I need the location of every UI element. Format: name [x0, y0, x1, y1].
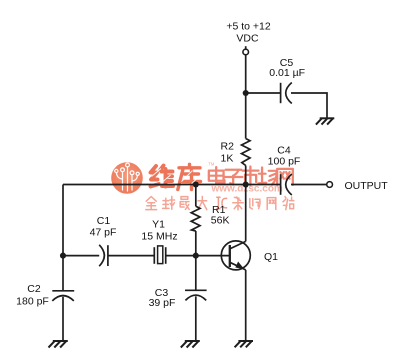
wire R1 vertical top [195, 185, 197, 207]
svg-text:0.01 µF: 0.01 µF [269, 67, 305, 79]
采 [234, 197, 240, 201]
resistor R2 [242, 139, 251, 166]
wire main feedback rail [63, 184, 281, 186]
svg-text:39 pF: 39 pF [149, 297, 176, 309]
最 [181, 197, 188, 200]
wire C1 to Y1 [108, 255, 154, 257]
svg-text:+5 to +12: +5 to +12 [226, 21, 271, 33]
char shi [243, 166, 259, 185]
svg-text:Y1: Y1 [152, 219, 165, 231]
站 [283, 197, 288, 210]
capacitor C1 plates [99, 245, 104, 266]
ground chassis C2 [53, 340, 68, 342]
球 [163, 198, 169, 208]
watermark brand text 库 [178, 164, 201, 189]
svg-text:56K: 56K [211, 215, 230, 227]
svg-text:TM: TM [208, 162, 215, 167]
wire C2 to ground [62, 297, 64, 341]
svg-text:VDC: VDC [236, 33, 259, 45]
网 [267, 198, 276, 210]
wire R2 to node [245, 166, 247, 185]
capacitor C4 plates [280, 174, 282, 195]
ground chassis C5 [320, 117, 335, 119]
wire emitter down to ground [245, 270, 247, 341]
transistor Q1 [221, 241, 250, 270]
watermark big text 电子市场网 [209, 166, 293, 185]
wire VDC down to R2 [245, 55, 247, 139]
wire left vertical to C2 [62, 185, 64, 291]
wire base rail junction to C1 [63, 255, 99, 257]
wire R1 to C3 [195, 231, 197, 290]
junction node C2/C1 [60, 253, 66, 259]
char dian [209, 167, 225, 183]
全 [146, 197, 156, 202]
svg-text:100 pF: 100 pF [268, 156, 301, 168]
watermark white brush cuts [152, 169, 200, 189]
capacitor C2 plates [52, 290, 74, 292]
resistor R1 [191, 206, 200, 231]
junction node R1 top [193, 181, 199, 187]
svg-text:180 pF: 180 pF [16, 296, 49, 308]
svg-text:1K: 1K [221, 153, 234, 165]
wire collector up [245, 185, 247, 242]
crystal Y1 [153, 247, 155, 264]
大 [198, 196, 207, 209]
watermark brand text 维 [151, 166, 174, 187]
svg-text:47 pF: 47 pF [90, 227, 117, 239]
svg-text:Q1: Q1 [264, 251, 278, 263]
power terminal circle [243, 49, 249, 55]
wire C4 to output [291, 184, 327, 186]
ground chassis Q1 [238, 340, 253, 342]
IC [217, 197, 227, 209]
watermark logo disc [111, 162, 143, 194]
svg-text:R2: R2 [221, 141, 235, 153]
char zi [224, 170, 242, 185]
wire stub above terminal [245, 46, 247, 49]
svg-text:OUTPUT: OUTPUT [345, 180, 389, 192]
capacitor C3 plates [185, 289, 207, 291]
wire node to C5 [246, 92, 281, 94]
output terminal circle [327, 182, 333, 188]
svg-text:C2: C2 [27, 283, 41, 295]
capacitor C5 plates [280, 83, 282, 103]
购 [250, 199, 253, 209]
junction node collector/R2 [243, 181, 249, 187]
junction node C5/VDC [243, 90, 249, 96]
junction node base/R1 [193, 253, 199, 259]
svg-text:15 MHz: 15 MHz [141, 231, 177, 243]
char wang [277, 169, 293, 185]
wire C5 to ground [291, 93, 327, 118]
char chang [258, 168, 276, 185]
wire Y1 to base node [166, 255, 230, 257]
watermark slogan line 全球最大 IC采购网站 [146, 196, 294, 209]
svg-text:C1: C1 [97, 215, 111, 227]
ground chassis C3 [185, 340, 200, 342]
wire C3 to ground [195, 296, 197, 340]
